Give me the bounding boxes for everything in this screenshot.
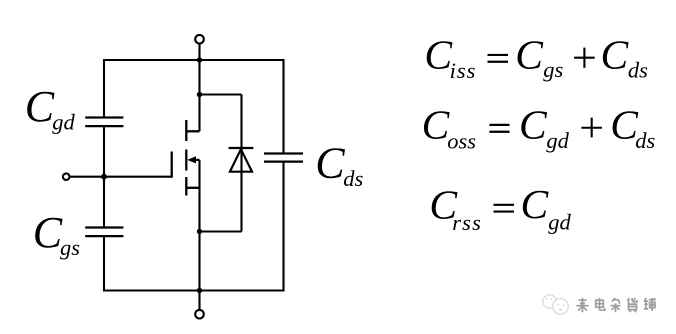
svg-text:ds: ds <box>635 128 655 153</box>
svg-text:C: C <box>521 181 550 227</box>
svg-text:rss: rss <box>452 210 482 235</box>
svg-text:C: C <box>601 32 630 78</box>
svg-text:ds: ds <box>343 166 363 191</box>
svg-text:gs: gs <box>543 57 563 82</box>
svg-text:ds: ds <box>628 58 648 83</box>
svg-text:C: C <box>315 139 345 188</box>
svg-text:iss: iss <box>450 58 477 83</box>
svg-text:gd: gd <box>546 128 569 153</box>
svg-text:oss: oss <box>447 129 476 154</box>
svg-text:C: C <box>25 82 55 131</box>
svg-text:C: C <box>515 32 544 78</box>
svg-text:gs: gs <box>60 235 80 260</box>
svg-text:gd: gd <box>52 110 75 135</box>
svg-text:gd: gd <box>548 210 571 235</box>
svg-text:C: C <box>519 102 548 148</box>
svg-text:C: C <box>33 208 63 257</box>
